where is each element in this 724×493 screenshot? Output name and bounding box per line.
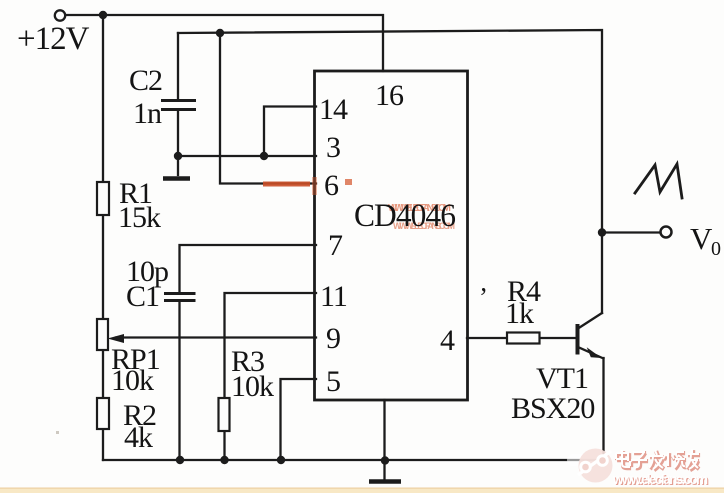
- svg-text:V: V: [690, 221, 713, 256]
- svg-text:+12V: +12V: [17, 21, 90, 57]
- svg-text:C2: C2: [129, 64, 162, 97]
- svg-text:5: 5: [326, 365, 340, 398]
- svg-text:4: 4: [440, 324, 455, 357]
- svg-text:4k: 4k: [124, 421, 153, 454]
- svg-text:16: 16: [375, 79, 404, 112]
- svg-text:15k: 15k: [118, 201, 161, 234]
- svg-text:11: 11: [320, 280, 347, 313]
- svg-text:’: ’: [479, 282, 487, 312]
- svg-text:BSX20: BSX20: [511, 392, 594, 425]
- svg-text:www.elecfans.com: www.elecfans.com: [612, 472, 708, 487]
- svg-text:9: 9: [326, 322, 340, 355]
- svg-text:0: 0: [711, 238, 721, 260]
- svg-text:6: 6: [324, 169, 339, 202]
- svg-text:10k: 10k: [231, 370, 274, 403]
- svg-text:CD4046: CD4046: [354, 198, 455, 234]
- svg-text:14: 14: [319, 93, 348, 126]
- svg-text:7: 7: [328, 229, 343, 262]
- svg-text:10k: 10k: [111, 364, 154, 397]
- svg-text:1n: 1n: [133, 97, 162, 130]
- svg-text:1k: 1k: [505, 297, 534, 330]
- svg-text:VT1: VT1: [536, 362, 588, 395]
- svg-text:C1: C1: [126, 280, 159, 313]
- svg-text:3: 3: [326, 131, 340, 164]
